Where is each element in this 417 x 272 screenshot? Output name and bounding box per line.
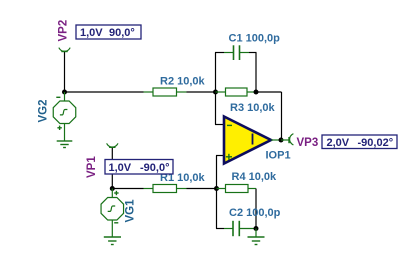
capacitor C2 — [224, 221, 256, 236]
svg-text:C1 100,0p: C1 100,0p — [229, 33, 281, 45]
VG2 plus sign — [57, 126, 61, 130]
svg-text:R2 10,0k: R2 10,0k — [160, 76, 206, 88]
wire minus branch vertical — [215, 92, 217, 125]
ground under VG2 — [57, 141, 73, 148]
svg-text:VG1: VG1 — [125, 199, 137, 223]
probe VP2 — [59, 48, 70, 52]
svg-text:VG2: VG2 — [38, 99, 50, 122]
wire VP2 stem — [64, 52, 66, 93]
probe VP3 — [281, 134, 293, 145]
op-amp plus input sign — [226, 154, 232, 160]
wire plus branch horizontal — [216, 155, 224, 157]
ground under C2 — [248, 229, 265, 245]
capacitor C1 — [224, 45, 249, 60]
op-amp IOP1 — [224, 117, 271, 164]
wire minus branch horizontal — [215, 124, 224, 126]
svg-text:VP2: VP2 — [58, 20, 70, 42]
svg-text:C2 100,0p: C2 100,0p — [229, 207, 281, 219]
junction J6 — [214, 186, 219, 191]
svg-text:-90,0°: -90,0° — [140, 162, 169, 174]
junction J2 — [213, 90, 218, 95]
junction J4 output node — [279, 138, 284, 143]
wire plus branch vertical — [216, 156, 218, 189]
generator VG1 — [101, 189, 124, 238]
svg-text:VP1: VP1 — [86, 156, 98, 178]
svg-text:1,0V: 1,0V — [80, 27, 103, 39]
ground under VG1 — [104, 237, 121, 245]
wire C1 top left horizontal — [215, 52, 224, 54]
VG1 minus sign — [114, 222, 118, 224]
resistor R3 — [216, 88, 257, 96]
wire C2 bottom left horizontal — [216, 228, 224, 230]
junction J5 — [110, 186, 115, 191]
svg-text:R3 10,0k: R3 10,0k — [230, 102, 276, 114]
wire feedback vertical — [281, 92, 283, 140]
wire C1 top right horizontal — [249, 52, 257, 54]
wire VP1 stem — [111, 147, 113, 188]
resistor R1 — [144, 185, 187, 193]
wire C1 left vertical — [215, 53, 217, 93]
svg-text:90,0°: 90,0° — [109, 27, 135, 39]
probe VP1 — [107, 143, 118, 147]
svg-text:IOP1: IOP1 — [266, 150, 291, 162]
wire R2 to J2 — [187, 91, 216, 93]
wire C1 right vertical — [255, 53, 257, 93]
svg-text:-90,02°: -90,02° — [358, 137, 394, 149]
svg-text:2,0V: 2,0V — [327, 137, 350, 149]
measurement box VP1 value (drawn over R1 label) — [105, 160, 173, 175]
junction J1 — [62, 90, 67, 95]
wire R4 right vertical — [255, 189, 257, 229]
wire top bus y=92 — [65, 91, 144, 93]
resistor R2 — [144, 88, 187, 96]
op-amp ideal marker I — [252, 134, 254, 145]
op-amp output lead — [271, 139, 281, 141]
junction J3 — [254, 90, 259, 95]
resistor R4 — [217, 185, 257, 193]
generator VG2 — [53, 92, 76, 141]
svg-text:VP3: VP3 — [297, 137, 319, 149]
junction J7 — [254, 226, 259, 231]
VG2 minus sign — [56, 96, 60, 98]
op-amp minus input sign — [227, 124, 232, 126]
svg-text:1,0V: 1,0V — [109, 162, 132, 174]
measurement box VP2 value — [76, 25, 141, 39]
wire feedback top — [256, 91, 282, 93]
VG1 plus sign — [114, 191, 118, 195]
wire C2 left vertical — [216, 189, 218, 229]
wire R1 to J6 — [187, 188, 217, 190]
wire bottom bus VP1 to R1 — [112, 188, 143, 190]
svg-text:R4 10,0k: R4 10,0k — [232, 171, 278, 183]
measurement box VP3 value — [322, 135, 397, 149]
